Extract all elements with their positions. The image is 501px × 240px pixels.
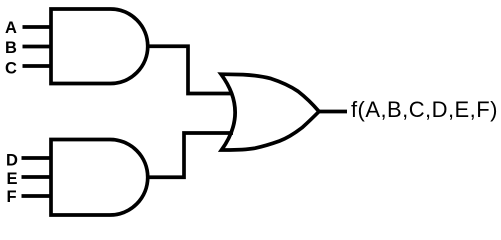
- svg-text:F: F: [7, 188, 17, 206]
- wire input D: [22, 156, 52, 160]
- svg-text:D: D: [6, 151, 18, 169]
- svg-text:B: B: [5, 39, 17, 57]
- wire input F: [22, 194, 52, 198]
- AND gate U2 (inputs D,E,F): [51, 140, 148, 216]
- svg-text:A: A: [5, 19, 17, 37]
- wire input C: [23, 64, 52, 68]
- svg-text:f(A,B,C,D,E,F): f(A,B,C,D,E,F): [351, 97, 498, 122]
- wire input E: [22, 175, 52, 179]
- svg-text:E: E: [7, 170, 18, 188]
- svg-text:C: C: [5, 60, 17, 78]
- wire input B: [23, 45, 52, 49]
- wire U2 output to OR lower input: [147, 133, 233, 177]
- OR gate U3: [221, 74, 319, 150]
- AND gate U1 (inputs A,B,C): [51, 9, 148, 84]
- wire OR output: [319, 110, 347, 114]
- wire U1 output to OR upper input: [147, 46, 233, 93]
- wire input A: [23, 25, 52, 29]
